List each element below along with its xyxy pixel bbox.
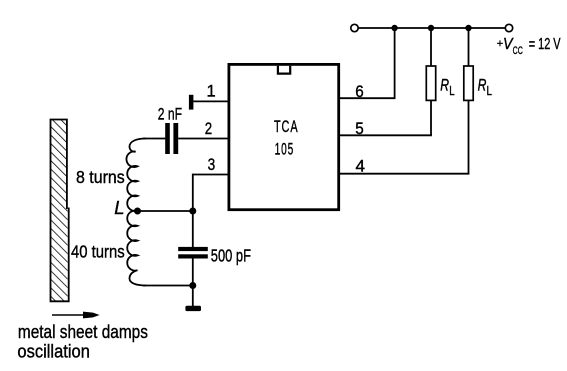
inductor L (upper winding, 8 turns): [126, 139, 146, 212]
op-amp / IC U1 TCA 105 box: [229, 64, 339, 209]
wire: pin3 down to tap and 500pF: [192, 174, 194, 248]
junction dot rail/pin6: [391, 25, 397, 31]
svg-text:metal sheet damps: metal sheet damps: [18, 322, 148, 342]
resistor RL2: [464, 66, 473, 100]
wire: RL2 bottom to pin 4: [468, 100, 470, 173]
wire: rail to RL1 top: [430, 28, 432, 67]
wire: pin 6: [338, 97, 396, 99]
IC label TCA 105: [274, 117, 299, 158]
svg-text:L: L: [487, 84, 492, 98]
label: metal sheet damps oscillation: [17, 322, 148, 362]
resistor RL1: [426, 66, 435, 100]
svg-text:4: 4: [356, 158, 366, 176]
capacitor 500pF: [178, 247, 208, 259]
ground: [185, 306, 201, 311]
wire: rail to RL2 top: [468, 28, 470, 67]
pin 1 terminal bar: [189, 95, 194, 110]
metal sheet (outline, lower segment): [51, 208, 69, 302]
svg-text:R: R: [478, 76, 487, 95]
label RL1: [440, 76, 454, 99]
inductor L (lower winding, 40 turns): [127, 211, 146, 286]
supply rail wire: [358, 27, 505, 29]
label +Vcc = 12 V: [497, 36, 561, 57]
svg-text:oscillation: oscillation: [17, 342, 90, 362]
wire: 2nF to pin 2: [178, 138, 228, 140]
svg-text:TCA: TCA: [274, 117, 299, 136]
IC notch: [278, 66, 290, 74]
svg-text:L: L: [449, 84, 454, 98]
svg-text:2 nF: 2 nF: [158, 104, 182, 123]
wire: pin 1: [193, 100, 228, 102]
wire: pin 4: [338, 173, 469, 175]
wire: coil top to 2nF: [143, 138, 165, 140]
junction dot (tap / pin3 vertical): [189, 208, 196, 215]
svg-text:105: 105: [275, 140, 295, 159]
svg-text:R: R: [440, 76, 449, 95]
capacitor 2nF: [165, 123, 178, 154]
arrow (sheet movement): [52, 312, 100, 319]
wire: coil tap: [138, 210, 193, 212]
svg-text:40 turns: 40 turns: [71, 242, 125, 262]
wire: RL1 bottom to pin 5: [430, 100, 432, 135]
svg-text:2: 2: [205, 120, 212, 138]
junction dot rail/RL2: [465, 25, 471, 31]
svg-text:500 pF: 500 pF: [211, 245, 251, 265]
wire: rail down to pin 6: [394, 28, 396, 98]
terminal circle left: [351, 24, 358, 31]
wire: 500pF to bottom node: [192, 259, 194, 286]
metal sheet (hatched plate fill): [51, 120, 68, 301]
svg-text:L: L: [114, 197, 124, 218]
svg-text:CC: CC: [513, 45, 523, 57]
metal sheet (outline, upper segment): [51, 120, 67, 213]
svg-text:= 12 V: = 12 V: [529, 36, 561, 53]
wire: bottom (coil to ground node): [143, 285, 193, 287]
svg-text:5: 5: [355, 120, 364, 138]
svg-text:1: 1: [207, 82, 216, 100]
wire: pin 3: [193, 174, 228, 176]
wire: pin 5: [338, 134, 432, 136]
label RL2: [478, 76, 492, 99]
terminal circle right: [505, 24, 512, 31]
svg-text:8 turns: 8 turns: [76, 167, 125, 187]
svg-text:6: 6: [355, 83, 364, 101]
junction dot (coil tap L): [134, 208, 141, 215]
svg-text:3: 3: [208, 156, 216, 174]
junction dot (bottom node): [189, 282, 196, 289]
ground stub wire: [192, 286, 194, 307]
junction dot rail/RL1: [428, 25, 434, 31]
